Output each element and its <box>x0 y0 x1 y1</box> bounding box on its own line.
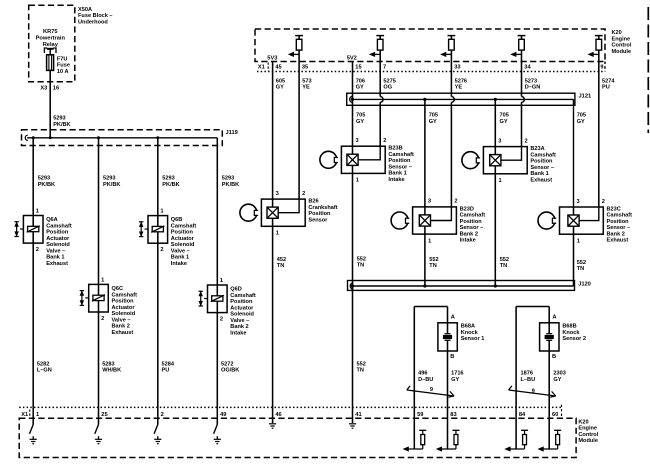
svg-text:59: 59 <box>417 412 423 418</box>
svg-text:Position: Position <box>388 158 411 164</box>
svg-text:5V2: 5V2 <box>347 55 357 61</box>
svg-text:Bank 2: Bank 2 <box>607 231 625 237</box>
svg-text:2: 2 <box>220 317 223 323</box>
svg-text:B26: B26 <box>308 199 318 205</box>
svg-text:Engine: Engine <box>578 426 597 432</box>
svg-text:83: 83 <box>450 412 456 418</box>
svg-text:PK/BK: PK/BK <box>162 182 179 188</box>
svg-text:Bank 1: Bank 1 <box>46 255 64 261</box>
svg-text:Valve –: Valve – <box>171 248 190 254</box>
svg-text:PK/BK: PK/BK <box>103 182 120 188</box>
svg-text:GY: GY <box>356 119 364 125</box>
svg-text:5273: 5273 <box>525 78 537 84</box>
svg-text:GY: GY <box>577 119 585 125</box>
svg-text:705: 705 <box>356 113 365 119</box>
svg-text:705: 705 <box>429 113 438 119</box>
svg-text:L–GN: L–GN <box>37 368 52 374</box>
svg-text:Sensor –: Sensor – <box>388 164 412 170</box>
svg-text:Bank 1: Bank 1 <box>530 171 548 177</box>
svg-text:D–BU: D–BU <box>418 377 433 383</box>
svg-text:10 A: 10 A <box>57 69 69 75</box>
svg-text:J119: J119 <box>226 130 238 136</box>
svg-text:9: 9 <box>532 388 535 394</box>
svg-text:Control: Control <box>578 432 598 438</box>
svg-text:34: 34 <box>524 65 531 71</box>
svg-text:5272: 5272 <box>221 361 233 367</box>
svg-text:1: 1 <box>220 278 223 284</box>
svg-text:2: 2 <box>302 191 305 197</box>
svg-text:Sensor 2: Sensor 2 <box>562 336 586 342</box>
svg-text:573: 573 <box>302 78 311 84</box>
svg-text:Relay: Relay <box>43 42 59 48</box>
svg-text:1876: 1876 <box>521 371 533 377</box>
svg-text:Actuator: Actuator <box>112 305 136 311</box>
svg-text:WH/BK: WH/BK <box>102 368 121 374</box>
svg-text:Actuator: Actuator <box>46 236 70 242</box>
svg-text:2: 2 <box>36 247 39 253</box>
svg-text:5274: 5274 <box>602 78 615 84</box>
svg-text:Position: Position <box>171 230 194 236</box>
svg-text:KR75: KR75 <box>43 29 58 35</box>
svg-text:X1: X1 <box>21 412 28 418</box>
svg-text:Position: Position <box>112 299 135 305</box>
svg-text:Solenoid: Solenoid <box>46 242 70 248</box>
svg-text:45: 45 <box>275 65 281 71</box>
svg-text:Position: Position <box>46 230 69 236</box>
svg-text:496: 496 <box>418 371 427 377</box>
svg-text:Solenoid: Solenoid <box>112 311 136 317</box>
svg-text:OG: OG <box>383 85 392 91</box>
svg-text:Solenoid: Solenoid <box>171 242 195 248</box>
svg-text:X50A: X50A <box>78 7 92 13</box>
svg-text:25: 25 <box>101 412 107 418</box>
svg-text:PU: PU <box>602 85 610 91</box>
svg-text:Crankshaft: Crankshaft <box>308 205 337 211</box>
svg-text:2: 2 <box>101 316 104 322</box>
svg-text:Q6D: Q6D <box>230 287 242 293</box>
svg-text:Bank 1: Bank 1 <box>388 171 406 177</box>
svg-text:Bank 1: Bank 1 <box>171 255 189 261</box>
svg-text:PU: PU <box>162 368 170 374</box>
svg-text:2: 2 <box>602 199 605 205</box>
svg-text:3: 3 <box>276 191 279 197</box>
svg-text:5282: 5282 <box>37 361 49 367</box>
svg-text:Solenoid: Solenoid <box>230 312 254 318</box>
svg-text:552: 552 <box>357 361 366 367</box>
svg-text:L–BU: L–BU <box>521 377 536 383</box>
svg-text:60: 60 <box>552 412 558 418</box>
svg-text:X3: X3 <box>40 85 47 91</box>
svg-text:Module: Module <box>578 438 598 444</box>
svg-text:PK/BK: PK/BK <box>38 182 55 188</box>
svg-text:2: 2 <box>383 138 386 144</box>
svg-text:B23C: B23C <box>607 206 621 212</box>
svg-text:Underhood: Underhood <box>78 19 108 25</box>
svg-text:Module: Module <box>612 49 632 55</box>
svg-text:GY: GY <box>356 85 364 91</box>
svg-text:GY: GY <box>553 377 561 383</box>
svg-text:B68A: B68A <box>461 324 475 330</box>
svg-text:GY: GY <box>451 377 459 383</box>
svg-text:2303: 2303 <box>553 371 565 377</box>
svg-text:PK/BK: PK/BK <box>222 182 239 188</box>
svg-text:84: 84 <box>519 412 526 418</box>
svg-text:Intake: Intake <box>388 177 404 183</box>
svg-text:TN: TN <box>277 263 284 269</box>
svg-text:J120: J120 <box>578 281 591 287</box>
svg-text:GY: GY <box>276 85 284 91</box>
svg-text:605: 605 <box>276 78 285 84</box>
svg-text:Position: Position <box>308 211 331 217</box>
svg-text:B: B <box>450 354 454 360</box>
svg-text:B68B: B68B <box>562 324 576 330</box>
svg-text:Sensor –: Sensor – <box>607 225 631 231</box>
svg-text:46: 46 <box>275 412 281 418</box>
svg-text:Knock: Knock <box>461 330 479 336</box>
svg-text:K20: K20 <box>612 30 622 36</box>
svg-text:5283: 5283 <box>102 361 114 367</box>
svg-text:J121: J121 <box>579 93 592 99</box>
svg-text:Position: Position <box>230 299 253 305</box>
svg-text:2: 2 <box>160 247 163 253</box>
svg-text:F7U: F7U <box>57 56 68 62</box>
svg-text:1: 1 <box>36 209 39 215</box>
svg-text:X1: X1 <box>258 65 265 71</box>
svg-text:TN: TN <box>357 263 364 269</box>
svg-text:TN: TN <box>500 263 507 269</box>
svg-text:Position: Position <box>607 219 630 225</box>
svg-text:1: 1 <box>36 412 39 418</box>
svg-text:Position: Position <box>460 219 483 225</box>
svg-text:Sensor 1: Sensor 1 <box>461 336 485 342</box>
svg-text:Exhaust: Exhaust <box>530 177 552 183</box>
svg-text:Control: Control <box>612 43 632 49</box>
svg-text:1: 1 <box>499 178 502 184</box>
svg-text:PK/BK: PK/BK <box>53 122 70 128</box>
svg-text:552: 552 <box>500 257 509 263</box>
svg-text:Valve –: Valve – <box>230 318 249 324</box>
svg-text:Knock: Knock <box>562 330 580 336</box>
svg-text:1: 1 <box>276 231 279 237</box>
svg-text:41: 41 <box>355 412 361 418</box>
svg-text:Position: Position <box>530 159 553 165</box>
svg-text:Exhaust: Exhaust <box>112 330 134 336</box>
svg-text:OG/BK: OG/BK <box>221 368 239 374</box>
svg-text:1: 1 <box>356 178 359 184</box>
svg-text:1: 1 <box>428 238 431 244</box>
svg-text:GY: GY <box>429 119 437 125</box>
svg-text:Bank 2: Bank 2 <box>230 324 248 330</box>
svg-text:Valve –: Valve – <box>46 248 65 254</box>
svg-text:Camshaft: Camshaft <box>388 152 414 158</box>
svg-text:705: 705 <box>577 113 586 119</box>
svg-text:K20: K20 <box>578 419 588 425</box>
svg-text:Camshaft: Camshaft <box>230 293 256 299</box>
svg-text:Fuse: Fuse <box>57 63 70 69</box>
svg-text:2: 2 <box>161 412 164 418</box>
svg-text:33: 33 <box>454 65 460 71</box>
svg-text:Q6A: Q6A <box>46 217 58 223</box>
svg-text:3: 3 <box>498 138 501 144</box>
svg-text:1: 1 <box>577 238 580 244</box>
svg-text:5275: 5275 <box>383 78 395 84</box>
svg-text:TN: TN <box>429 263 436 269</box>
svg-text:Camshaft: Camshaft <box>46 223 72 229</box>
svg-text:5V3: 5V3 <box>267 55 277 61</box>
svg-text:Sensor –: Sensor – <box>460 225 484 231</box>
svg-text:Engine: Engine <box>612 36 631 42</box>
svg-text:7: 7 <box>383 65 386 71</box>
svg-text:B23B: B23B <box>388 146 402 152</box>
svg-text:Exhaust: Exhaust <box>46 261 68 267</box>
svg-text:35: 35 <box>302 65 308 71</box>
svg-text:552: 552 <box>429 257 438 263</box>
svg-text:1: 1 <box>101 277 104 283</box>
svg-text:552: 552 <box>357 256 366 262</box>
svg-text:B: B <box>552 354 556 360</box>
svg-text:B23A: B23A <box>530 146 544 152</box>
svg-text:Bank 2: Bank 2 <box>112 324 130 330</box>
svg-text:552: 552 <box>577 260 586 266</box>
svg-text:1: 1 <box>160 209 163 215</box>
svg-text:2: 2 <box>454 199 457 205</box>
svg-text:3: 3 <box>356 138 359 144</box>
svg-text:Sensor: Sensor <box>308 217 328 223</box>
svg-text:A: A <box>451 315 455 321</box>
svg-text:Q6B: Q6B <box>171 217 183 223</box>
svg-text:5276: 5276 <box>455 78 467 84</box>
svg-text:Intake: Intake <box>460 238 476 244</box>
svg-text:Camshaft: Camshaft <box>460 213 486 219</box>
svg-text:Intake: Intake <box>171 261 187 267</box>
svg-text:Camshaft: Camshaft <box>112 292 138 298</box>
svg-text:49: 49 <box>220 412 226 418</box>
svg-text:9: 9 <box>600 65 603 71</box>
svg-text:2: 2 <box>525 138 528 144</box>
svg-text:GY: GY <box>500 119 508 125</box>
svg-text:B23D: B23D <box>460 206 474 212</box>
svg-text:Actuator: Actuator <box>230 305 254 311</box>
svg-text:Bank 2: Bank 2 <box>460 231 478 237</box>
svg-text:1716: 1716 <box>451 371 463 377</box>
svg-text:TN: TN <box>577 266 584 272</box>
svg-text:5293: 5293 <box>38 176 50 182</box>
svg-text:TN: TN <box>357 368 364 374</box>
svg-text:Powertrain: Powertrain <box>36 36 66 42</box>
svg-text:16: 16 <box>53 85 59 91</box>
svg-text:Valve –: Valve – <box>112 317 131 323</box>
svg-text:Camshaft: Camshaft <box>607 213 633 219</box>
svg-text:Actuator: Actuator <box>171 236 195 242</box>
svg-text:706: 706 <box>356 78 365 84</box>
svg-text:Sensor –: Sensor – <box>530 165 554 171</box>
svg-text:Q6C: Q6C <box>112 286 124 292</box>
svg-text:Intake: Intake <box>230 330 246 336</box>
svg-text:705: 705 <box>500 113 509 119</box>
svg-text:YE: YE <box>455 85 463 91</box>
svg-text:9: 9 <box>430 387 433 393</box>
svg-text:452: 452 <box>277 257 286 263</box>
svg-text:Exhaust: Exhaust <box>607 238 629 244</box>
svg-text:D–GN: D–GN <box>525 85 541 91</box>
svg-text:A: A <box>552 315 556 321</box>
svg-text:5293: 5293 <box>162 176 174 182</box>
svg-text:YE: YE <box>302 85 310 91</box>
svg-text:Camshaft: Camshaft <box>530 152 556 158</box>
svg-text:5293: 5293 <box>53 116 65 122</box>
svg-text:Fuse Block –: Fuse Block – <box>78 13 113 19</box>
svg-text:5293: 5293 <box>222 176 234 182</box>
svg-text:Camshaft: Camshaft <box>171 223 197 229</box>
svg-text:3: 3 <box>428 199 431 205</box>
svg-text:3: 3 <box>577 199 580 205</box>
svg-text:5293: 5293 <box>103 176 115 182</box>
svg-text:5284: 5284 <box>162 361 175 367</box>
svg-text:15: 15 <box>355 65 361 71</box>
